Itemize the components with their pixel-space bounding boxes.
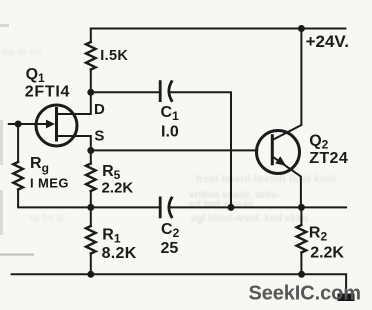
- node junction dot mid C1: [228, 204, 235, 211]
- node junction dot mid-left: [87, 204, 94, 211]
- node junction dot +24V: [298, 25, 305, 32]
- wire JFET source lead to node S: [58, 136, 91, 151]
- svg-text:D: D: [94, 101, 105, 118]
- capacitor C1: [160, 82, 171, 101]
- wire node S to Q2 base: [91, 149, 257, 151]
- transistor Q2 emitter arrow: [275, 156, 286, 165]
- node junction dot S: [87, 147, 94, 154]
- node junction dot gate: [15, 121, 22, 128]
- transistor Q1 channel bar: [55, 109, 58, 141]
- svg-text:S: S: [94, 128, 104, 145]
- wire R2 top lead: [300, 207, 302, 225]
- node junction dot D: [87, 89, 94, 96]
- transistor Q1 (JFET 2FT14) body circle: [36, 105, 77, 146]
- svg-text:I.5K: I.5K: [100, 48, 128, 64]
- svg-text:na-dr lm: na-dr lm: [2, 47, 42, 58]
- ghost bleed-through text lines: [2, 47, 336, 225]
- transistor Q1 gate arrow: [46, 120, 55, 129]
- resistor 1.5K: [86, 42, 96, 69]
- wire bottom ground rail: [12, 274, 347, 295]
- wire R1 top lead: [90, 207, 92, 226]
- wire 1.5K bottom lead to node D: [90, 70, 92, 93]
- svg-text:ta fm al: ta fm al: [30, 213, 65, 224]
- transistor Q2 body circle: [257, 131, 300, 174]
- resistor R1: [86, 226, 96, 254]
- wire gate lead into Q1: [9, 123, 52, 125]
- wire node S down to R5: [90, 151, 92, 164]
- svg-text:bsat imeul-lavsdt fiaal knsi: bsat imeul-lavsdt fiaal knsi: [196, 174, 336, 186]
- wire R2 bottom lead: [300, 253, 302, 275]
- svg-text:2FTI4: 2FTI4: [25, 84, 70, 101]
- resistor R2: [297, 225, 307, 253]
- node junction dot mid emitter: [298, 204, 305, 211]
- svg-text:25: 25: [161, 240, 179, 257]
- wire gate node down left branch: [17, 124, 19, 162]
- wire node D to C1 left plate: [91, 91, 159, 93]
- wire mid rail right of C2: [170, 206, 347, 208]
- svg-text:8.2K: 8.2K: [102, 245, 137, 262]
- wire Q2 collector up to +24V rail: [272, 29, 301, 141]
- wire 1.5K top lead from rail: [90, 29, 92, 43]
- capacitor C2: [160, 198, 171, 217]
- svg-text:SeekIC.com: SeekIC.com: [249, 283, 361, 305]
- node junction dot bottom R1: [87, 271, 94, 278]
- svg-text:2.2K: 2.2K: [102, 180, 134, 197]
- wire Rg bottom to mid rail corner: [18, 190, 91, 208]
- wire Q2 emitter down to mid rail: [272, 157, 301, 208]
- node junction dot bottom R2: [298, 271, 305, 278]
- svg-text:+24V.: +24V.: [306, 32, 349, 51]
- transistor Q2 base bar: [271, 136, 274, 164]
- resistor R5: [86, 164, 96, 192]
- svg-text:I.0: I.0: [161, 123, 179, 140]
- wire mid rail left of C2: [91, 206, 159, 208]
- svg-text:vgl blind-wsrd. knd vkeo: vgl blind-wsrd. knd vkeo: [191, 214, 308, 225]
- svg-text:ZT24: ZT24: [309, 150, 348, 167]
- wire JFET drain lead to node D: [58, 92, 91, 114]
- svg-text:2.2K: 2.2K: [310, 244, 344, 261]
- wire R5 bottom to mid junction: [90, 191, 92, 207]
- wire R1 bottom lead to bottom rail: [90, 254, 92, 275]
- resistor Rg: [13, 162, 23, 190]
- wire top supply rail: [91, 28, 346, 30]
- scan edge marks: [0, 24, 34, 256]
- ground terminal block: [338, 294, 355, 302]
- wire C1 right plate to corner and down to mid rail: [170, 92, 231, 207]
- svg-text:I MEG: I MEG: [30, 175, 69, 190]
